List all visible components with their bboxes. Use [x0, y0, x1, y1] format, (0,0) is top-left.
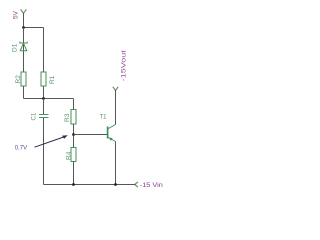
wire C1 top lead — [43, 99, 45, 115]
wire collector — [115, 90, 117, 125]
wire base horizontal — [74, 134, 108, 136]
diode D1 (zener) — [20, 42, 27, 51]
svg-text:R4: R4 — [66, 151, 73, 160]
wire 5V stem — [23, 13, 25, 28]
wire middle horizontal — [24, 98, 74, 100]
power symbol -15V input — [135, 182, 138, 187]
svg-text:R1: R1 — [49, 75, 56, 84]
annotation arrow — [35, 135, 68, 147]
wire top horizontal — [24, 27, 44, 29]
svg-text:R2: R2 — [15, 75, 22, 84]
svg-text:R3: R3 — [64, 113, 71, 122]
svg-text:D1: D1 — [11, 43, 18, 52]
node junction R4 bottom — [72, 183, 75, 186]
resistor R2 — [21, 72, 26, 86]
svg-text:-15 Vin: -15 Vin — [140, 183, 163, 189]
svg-text:C1: C1 — [32, 112, 38, 120]
wire left column — [23, 28, 25, 99]
wire middle column — [43, 28, 45, 99]
wire R3 column top — [73, 99, 75, 111]
wire R4 bottom lead — [73, 162, 75, 185]
resistor R1 — [41, 72, 46, 86]
wire emitter — [115, 142, 117, 185]
wire R3 to junction — [73, 124, 75, 148]
svg-text:T1: T1 — [100, 115, 108, 121]
svg-text:-15Vout: -15Vout — [120, 50, 127, 81]
node junction middle — [42, 97, 45, 100]
transistor T1 (PNP) — [108, 125, 116, 142]
wire -15V input stub — [133, 184, 136, 186]
resistor R3 — [71, 110, 76, 125]
power symbol -15Vout — [113, 87, 118, 91]
capacitor C1 — [39, 115, 49, 118]
node junction emitter bottom — [114, 183, 117, 186]
wire C1 bottom lead — [43, 118, 45, 185]
node base junction — [72, 133, 75, 136]
power symbol 5V — [21, 9, 27, 13]
svg-text:0.7V: 0.7V — [15, 145, 27, 151]
node junction top — [22, 26, 25, 29]
wire bottom rail — [44, 184, 133, 186]
resistor R4 — [71, 148, 76, 162]
svg-text:5V: 5V — [13, 10, 20, 19]
